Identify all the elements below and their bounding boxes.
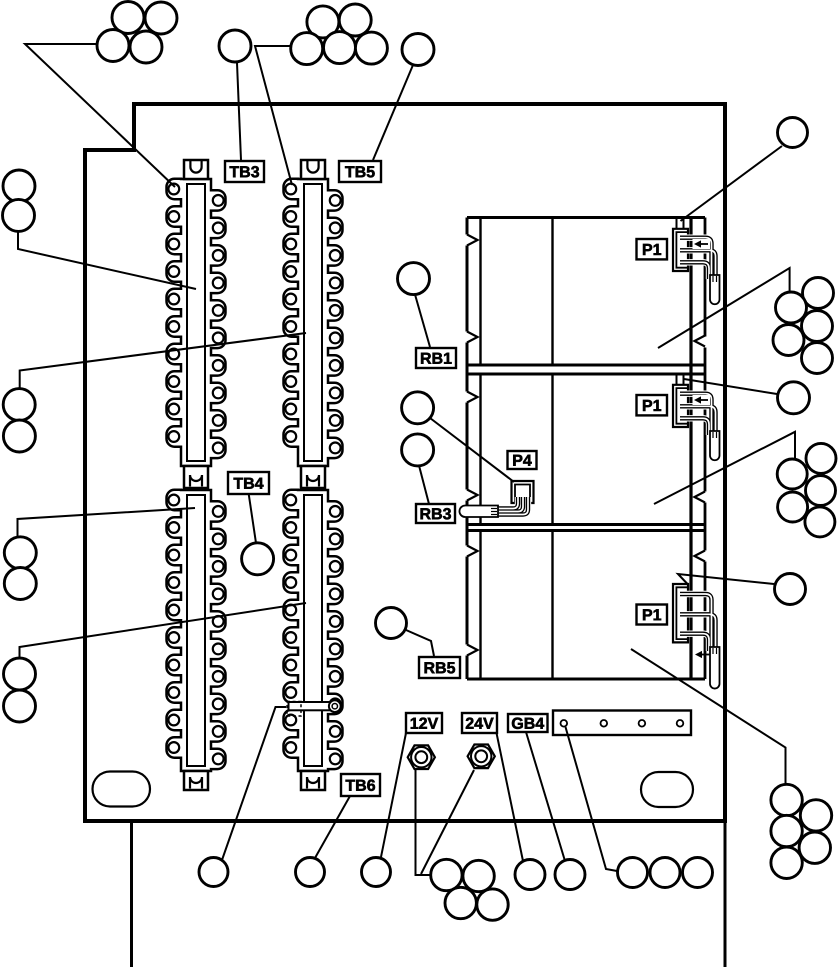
relay block 3 bottom edge bbox=[467, 678, 705, 681]
leader 12V label to balloon bbox=[381, 733, 406, 857]
leader P1 block2 to balloon bbox=[684, 379, 777, 394]
terminal block TB5 (upper-right strip) bbox=[284, 179, 343, 466]
relay block 1 inner vertical lines bbox=[479, 218, 481, 366]
terminal block TB6 (lower-right strip) bbox=[284, 490, 343, 771]
label 12V bbox=[406, 713, 442, 733]
connector P1 of relay block 2 bbox=[676, 374, 678, 385]
callout balloons cluster top-left bbox=[112, 2, 144, 34]
leader balloon to P1 block1 bbox=[681, 146, 783, 221]
connector P4 on relay block 2 bbox=[512, 481, 534, 503]
mounting slot lower-right bbox=[641, 772, 693, 807]
relay block 2 bottom edge bbox=[467, 523, 705, 526]
relay block1 left chevrons bbox=[467, 235, 478, 246]
leader jumper to balloon bbox=[222, 707, 286, 860]
leader relay block3 to right cluster bbox=[631, 649, 786, 784]
label P1 block3 bbox=[637, 605, 668, 625]
label RB1 bbox=[416, 348, 456, 368]
label TB3 bbox=[225, 161, 264, 182]
relay block2 left chevrons bbox=[467, 392, 478, 403]
ground bar GB4 with 4 holes bbox=[553, 711, 691, 736]
label TB6 bbox=[341, 774, 380, 796]
leader left pair C to TB4 strip bbox=[18, 508, 196, 536]
terminal block TB3 (upper-left strip) bbox=[167, 179, 226, 466]
label P4 bbox=[508, 451, 537, 469]
label TB5 bbox=[339, 161, 381, 182]
callout balloon TB5 bbox=[402, 34, 434, 66]
terminal block TB4 (lower-left strip) bbox=[167, 490, 226, 771]
callout balloon RB3 bbox=[402, 434, 434, 466]
leader TB6 label to balloon bbox=[315, 796, 350, 858]
callout balloon 24V bbox=[515, 860, 545, 890]
board outline (panel edge) bbox=[85, 104, 725, 821]
leader 24V stud to balloon bbox=[421, 770, 474, 874]
leader RB3 balloon to label bbox=[419, 466, 429, 505]
callout balloons bottom cluster GB bbox=[618, 858, 648, 888]
leader relay block1 to right cluster bbox=[658, 268, 790, 348]
terminal stud 12V (hex bolt) bbox=[408, 745, 435, 769]
leader TB3 label to balloon bbox=[237, 63, 241, 160]
callout balloons right cluster 3 bbox=[771, 784, 802, 815]
wire: relay rail outer right bbox=[704, 218, 707, 337]
connector P1 of relay block 3 bbox=[673, 584, 688, 642]
leader ground bar hole to balloon bbox=[566, 727, 618, 871]
relay block 1 top edge bbox=[467, 216, 705, 219]
mounting slot lower-left bbox=[93, 772, 151, 807]
leader left pair D to TB6 strip bbox=[20, 603, 307, 658]
callout balloons left pair D bbox=[4, 658, 36, 690]
leader to TB5 terminals from top balloons bbox=[255, 46, 292, 185]
label 24V bbox=[462, 713, 497, 733]
callout balloons left pair B bbox=[3, 389, 35, 421]
relay block3 left chevrons bbox=[467, 546, 478, 557]
relay block 2 inner vertical lines bbox=[479, 374, 481, 525]
label P1 block1 bbox=[637, 239, 668, 259]
relay block 3 inner vertical lines bbox=[479, 531, 481, 680]
label GB4 bbox=[508, 714, 548, 732]
relay block right chevrons bbox=[695, 336, 706, 347]
callout balloons right cluster 1 bbox=[803, 278, 834, 309]
label TB4 bbox=[228, 472, 269, 494]
leader relay block2 to right cluster bbox=[654, 432, 795, 504]
wire: relay rail left edge bbox=[466, 218, 469, 235]
leader 12V stud to balloon bbox=[416, 770, 432, 875]
relay block 3 top edge bbox=[467, 529, 705, 532]
label P1 block2 bbox=[637, 395, 668, 415]
leader to TB3 terminals from top-left balloons bbox=[25, 44, 175, 187]
callout balloons cluster top-middle bbox=[307, 6, 339, 38]
callout balloon TB3 bbox=[219, 30, 251, 62]
callout balloon RB1 bbox=[398, 263, 430, 295]
terminal stud 24V (hex bolt) bbox=[468, 745, 495, 769]
label RB3 bbox=[416, 504, 455, 523]
leader 24V label to balloon bbox=[497, 733, 524, 861]
leader TB5 label to balloon bbox=[373, 65, 413, 160]
callout balloons left pair C bbox=[4, 537, 36, 569]
callout balloon P1 middle-right bbox=[778, 382, 810, 414]
leader left pair B to TB5 strip bbox=[20, 333, 306, 389]
wire: relay rail inner right bbox=[689, 218, 692, 680]
jumper strap on terminal block TB6 bbox=[289, 702, 336, 710]
callout balloons bottom cluster 12V-24V bbox=[431, 859, 462, 890]
callout balloon P1 lower-right bbox=[775, 574, 806, 605]
leader TB4 label to balloon bbox=[249, 494, 256, 543]
relay block 2 top edge bbox=[467, 373, 705, 376]
callout balloons bottom row bbox=[199, 858, 228, 887]
leader balloon to connector P4 bbox=[430, 418, 514, 482]
leader RB5 balloon to label bbox=[406, 630, 434, 656]
wire: left enclosure line below board bbox=[130, 821, 133, 967]
callout balloon P1 top-right bbox=[778, 118, 808, 148]
leader GB4 label to balloon bbox=[526, 732, 565, 861]
callout balloon P4 bbox=[402, 392, 434, 424]
leader P1 block3 to balloon bbox=[678, 574, 774, 584]
leader left pair A to TB3 strip bbox=[18, 232, 196, 289]
callout balloons right cluster 2 bbox=[806, 443, 836, 473]
callout balloon RB5 bbox=[376, 608, 407, 639]
callout balloon GB4 bbox=[555, 860, 585, 890]
wire: right enclosure line below board bbox=[724, 821, 727, 967]
leader RB1 balloon to label bbox=[415, 295, 430, 348]
callout balloon TB4 bbox=[242, 543, 274, 575]
relay block 1 bottom edge bbox=[467, 364, 705, 367]
connector P1 of relay block 1 bbox=[676, 218, 678, 229]
label RB5 bbox=[419, 657, 460, 678]
callout balloons left pair A bbox=[3, 170, 35, 202]
